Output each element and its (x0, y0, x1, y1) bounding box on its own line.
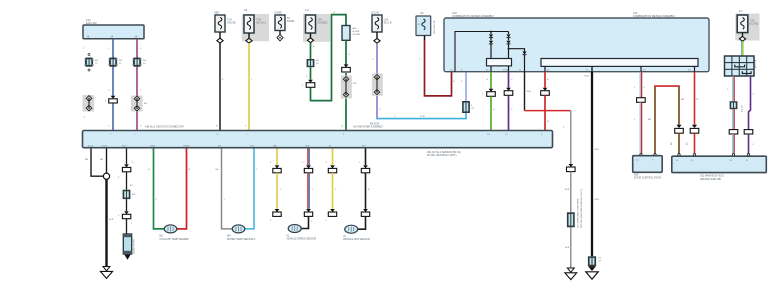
wire V-R (magenta) from block A to ECM bar (137, 39, 142, 131)
wire (cyan/red dual) junction block to door box (727, 76, 738, 156)
node stub (white wire pin) (83, 48, 90, 71)
svg-text:G: G (493, 109, 495, 111)
svg-text:27-A: 27-A (503, 69, 508, 72)
wire (black thick) meter pin 17 to ground (585, 72, 600, 257)
svg-text:A/C No.1: A/C No.1 (256, 22, 266, 25)
in-line connector (shielded pair) on green loop (341, 76, 357, 99)
svg-text:GAUGE: GAUGE (227, 22, 236, 25)
svg-text:WO: WO (362, 145, 366, 147)
internal branch to pin 31 (508, 48, 525, 52)
svg-text:W-B: W-B (565, 189, 570, 191)
motor M2 (speed sensor rear) (343, 225, 370, 241)
internal wiring of meter (455, 31, 509, 72)
svg-text:DOME: DOME (287, 20, 295, 23)
wire (green) meter pin 26 to ECM bar (482, 72, 495, 131)
svg-text:ENG SW: ENG SW (86, 21, 97, 25)
diode D1 (489, 34, 493, 58)
svg-text:FILTER: FILTER (353, 34, 361, 36)
wire (purple) meter pin 27 to ECM bar (504, 72, 513, 131)
svg-text:COMBINATION METER ASSEMBLY: COMBINATION METER ASSEMBLY (452, 14, 495, 18)
svg-text:NOISE: NOISE (353, 31, 360, 33)
in-line connector arrow+box on brown wire (671, 125, 683, 156)
svg-text:IL2 J/C: IL2 J/C (742, 105, 744, 112)
wire (gray) ECM THWO to sensor (215, 149, 233, 229)
wire (green) fuse F4 chain (306, 33, 315, 101)
svg-text:G: G (486, 79, 488, 81)
svg-text:BR: BR (648, 119, 651, 121)
wire (green) loop up and over (311, 12, 347, 101)
svg-text:MET: MET (215, 12, 221, 15)
svg-text:W-B: W-B (109, 219, 114, 221)
diode D3 (522, 52, 526, 72)
wire (gray) lower segment to ground (565, 227, 571, 268)
wire (green) ECM THW to sender (148, 149, 165, 229)
svg-text:ECU-B2: ECU-B2 (750, 23, 759, 26)
door control box (bottom right wide) (672, 156, 767, 181)
resistor block (light blue) on green loop (342, 26, 360, 41)
meter pin labels (450, 69, 691, 72)
wire (teal/yellow dual) fuse F7 to junction block (742, 41, 743, 56)
connector box on chain (123, 190, 136, 199)
combination meter assembly box (444, 11, 709, 72)
svg-text:E2-C: E2-C (122, 145, 127, 147)
ground symbol IH (black run) (586, 266, 598, 279)
in-line connector (white run, shielded pair) (83, 95, 95, 119)
svg-text:W/O DRL (DAYTIME RUNNING LIGHT: W/O DRL (DAYTIME RUNNING LIGHT) (580, 189, 583, 228)
svg-text:W-B: W-B (527, 91, 532, 93)
svg-text:W/ DRL (RUNNING LIGHT): W/ DRL (RUNNING LIGHT) (427, 154, 457, 157)
in-line connector (shielded pair) on magenta wire (131, 96, 148, 112)
svg-text:COMBINATION METER ASSEMBLY: COMBINATION METER ASSEMBLY (633, 14, 676, 18)
arrow end below capacitor (124, 255, 130, 260)
svg-text:2-A: 2-A (305, 9, 309, 12)
noise filter capacitor (teal cylinder) (123, 234, 135, 254)
wire (dark red) ignition to meter box (419, 36, 456, 96)
svg-text:E6 ECM: E6 ECM (370, 122, 379, 125)
svg-text:G: G (313, 46, 315, 48)
label under ECM bar right (427, 151, 461, 157)
svg-text:W-B: W-B (595, 199, 600, 201)
rotated note beside gray run (577, 189, 583, 228)
svg-text:27-A: 27-A (420, 115, 425, 118)
junction block No.2 (grid) (725, 56, 758, 76)
wire (lavender) up to meter box (461, 72, 466, 101)
sender S1 (engine coolant temp) (160, 225, 190, 241)
receiver box (bottom right small) (633, 156, 663, 180)
wire (violet) fuse F6 down (372, 32, 381, 119)
svg-text:1-B: 1-B (244, 9, 248, 12)
svg-text:VEHICLE SPEED SENSOR: VEHICLE SPEED SENSOR (287, 238, 317, 241)
fuse F3 (spare) (275, 12, 295, 41)
svg-text:W-B: W-B (585, 76, 590, 78)
svg-text:(DRIVER SIDE J/B): (DRIVER SIDE J/B) (700, 178, 721, 181)
connector box on thick black wire (588, 256, 602, 266)
wire (cyan) sensor return (245, 149, 259, 229)
svg-text:G: G (334, 12, 336, 14)
svg-text:A38 No.3 JUNCTION CONNECTOR: A38 No.3 JUNCTION CONNECTOR (145, 126, 184, 129)
svg-text:SPD: SPD (305, 145, 310, 147)
svg-text:A/C AMPLIFIER ASSEMBLY: A/C AMPLIFIER ASSEMBLY (353, 126, 384, 129)
wire (black) ECM E2-C shielded chain (118, 149, 134, 190)
in-line connector (shielded pair) on violet wire (372, 74, 383, 96)
wire (yellow) ECM FU to tachometer feed (270, 149, 282, 222)
in-line connector arrow+box on green wire (302, 80, 315, 88)
wire (red) meter pin 28 to door box (687, 72, 699, 156)
meter inner block 2 (long) (541, 59, 698, 72)
svg-text:ECU-B: ECU-B (384, 22, 392, 25)
wire (cyan) horizontal run to meter (377, 113, 466, 119)
junction node ring (103, 173, 109, 179)
sensor S2 (water temp) (227, 225, 256, 241)
svg-text:BR: BR (681, 99, 684, 101)
svg-text:IGNITION SW: IGNITION SW (434, 19, 436, 34)
svg-text:DOME: DOME (275, 12, 283, 15)
wire (black thick) ECM E1-B to body ground (100, 149, 114, 268)
svg-text:FU: FU (218, 145, 221, 147)
svg-text:TAC: TAC (273, 144, 278, 147)
connector symbol on blue wire (108, 58, 123, 67)
wire (black) meter pin 31 jog to gray ground run (525, 72, 571, 112)
fuse F4 (shaded) (303, 9, 330, 43)
svg-text:No.1 WIRE AND COWL WIRE: No.1 WIRE AND COWL WIRE (577, 198, 580, 228)
diode D2 (506, 34, 510, 58)
connector box on gray ground run (567, 212, 575, 227)
svg-text:BR: BR (85, 159, 88, 161)
wire (red) meter pin 13 to ECM bar (541, 72, 550, 131)
fuse F6 ECU-B (372, 12, 392, 44)
svg-text:ECU-B: ECU-B (372, 12, 380, 15)
svg-text:No.2 J/B: No.2 J/B (755, 59, 757, 68)
wire (black) ECM WO to sensor M2 (358, 149, 370, 230)
connector box on cyan/red wire (730, 101, 744, 112)
svg-text:W-B: W-B (565, 247, 570, 249)
svg-text:G: G (342, 126, 344, 128)
connector symbol (white run) (84, 58, 99, 67)
ECM bar (engine control module) (83, 122, 553, 147)
in-line connector arrow+box lower on chain (118, 199, 133, 234)
svg-text:COOLANT TEMP SENDER: COOLANT TEMP SENDER (160, 238, 190, 241)
in-line connector arrow+box on green loop (342, 64, 351, 72)
ground symbol EC (bottom left) (100, 267, 112, 279)
wire (green) below resistor (342, 40, 351, 130)
wire (purple) junction block to door box (744, 76, 754, 156)
svg-text:G: G (348, 54, 350, 56)
svg-text:E1-B: E1-B (102, 145, 107, 147)
svg-text:THWO: THWO (183, 145, 190, 147)
ground symbol IE (gray run) (565, 268, 577, 280)
wire (black) to combination meter motor M1 (301, 216, 313, 228)
fuse F1 GAUGE (215, 12, 237, 43)
wire (blue/red dual) meter pin 25 to receiver box (634, 72, 646, 156)
wire (brown) receiver to door box with red top link (648, 86, 684, 156)
svg-text:VEHICLE SPD SENSOR: VEHICLE SPD SENSOR (343, 238, 370, 241)
in-line connector arrow+box on blue wire (105, 96, 117, 103)
wire (yellow) ECM W warning feed (326, 149, 338, 222)
wire (gray) down to ground G1 (563, 111, 575, 213)
svg-text:NOISE FILTER: NOISE FILTER (134, 239, 136, 254)
connector box on cyan/lavender junction (462, 101, 475, 113)
connector block A (top-left ECU box) (83, 18, 144, 39)
wire (red) sender return (177, 149, 191, 229)
wire (black) ECM E1-A to junction node (85, 149, 103, 177)
svg-text:WATER TEMP SENSOR 2: WATER TEMP SENSOR 2 (227, 238, 256, 241)
svg-text:DOOR CONTROL RCVR: DOOR CONTROL RCVR (634, 177, 661, 180)
svg-text:G: G (148, 169, 150, 171)
meter inner block 1 (487, 59, 512, 72)
svg-text:E1-A: E1-A (88, 144, 93, 147)
connector symbol on magenta wire (132, 58, 147, 67)
svg-text:BR: BR (100, 159, 103, 161)
wire (yellow) fuse F2 to ECM bar (245, 33, 253, 131)
svg-text:W-B: W-B (595, 149, 600, 151)
fuse F7 DOME (far right, shaded) (735, 10, 759, 41)
fuse F2 (shaded) (242, 9, 269, 43)
ECM bar pin labels (top) (110, 134, 543, 136)
wire (red/blue dual) ECM SPD to speed sensor (302, 149, 314, 217)
motor M1 (vehicle speed sensor) (287, 225, 317, 241)
wire (black) fuse F1 to ECM bar (216, 32, 224, 131)
svg-text:GAUGE2: GAUGE2 (318, 22, 329, 25)
connector box on green wire (307, 59, 320, 67)
ignition switch box (416, 12, 436, 36)
ECM bar pin labels (bottom) (88, 144, 366, 147)
svg-text:GR: GR (215, 169, 219, 171)
wire L (blue) from block A to ECM bar (109, 39, 114, 131)
